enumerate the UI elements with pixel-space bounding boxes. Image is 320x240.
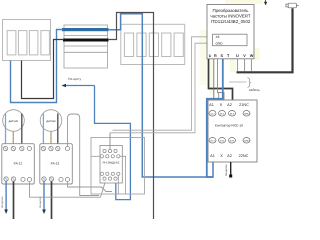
svg-text:14NO: 14NO bbox=[244, 140, 250, 143]
svg-text:22NC: 22NC bbox=[239, 154, 249, 158]
wire sensor1 brown bbox=[12, 131, 14, 147]
wire sensor1 black bbox=[21, 114, 23, 148]
svg-text:A2: A2 bbox=[227, 103, 232, 107]
wire thin line 1 bbox=[64, 34, 108, 36]
wire PA-12 black out bbox=[13, 182, 15, 220]
cursor arrow bbox=[265, 0, 267, 3]
svg-text:X3: X3 bbox=[216, 35, 220, 39]
wire S down jog bbox=[218, 59, 225, 100]
relay PA-13 bbox=[40, 144, 73, 184]
wire PA-12 aux to relay socket bbox=[30, 181, 106, 197]
wire S stub bbox=[218, 93, 220, 101]
wire thin line 2 bbox=[64, 45, 108, 47]
inverter box bbox=[207, 5, 254, 59]
svg-text:датчик: датчик bbox=[46, 119, 56, 123]
callout cable brace bbox=[229, 81, 247, 83]
highlight band right of W bbox=[255, 48, 260, 60]
svg-text:частоты INNOVERT: частоты INNOVERT bbox=[210, 14, 251, 19]
svg-text:4/T2: 4/T2 bbox=[220, 140, 225, 143]
wire PA-13 blue out with arrow bbox=[43, 182, 45, 211]
svg-text:X: X bbox=[220, 103, 223, 107]
svg-text:A1: A1 bbox=[209, 103, 214, 107]
svg-text:ITD112U43B2_0502: ITD112U43B2_0502 bbox=[211, 19, 251, 24]
wire T blue to contactor A1 bbox=[207, 59, 223, 177]
wire blue bar bbox=[62, 28, 109, 31]
motor icon bbox=[286, 3, 299, 8]
wire PE down right bbox=[209, 59, 233, 100]
sensor 2 bbox=[40, 110, 62, 132]
sensor 1 bbox=[3, 110, 25, 132]
svg-text:W: W bbox=[250, 54, 254, 58]
inverter control terminal block X3 bbox=[213, 34, 248, 46]
svg-text:U: U bbox=[236, 54, 239, 58]
relay socket enclosure bbox=[91, 138, 145, 195]
svg-text:Контактор NXC-18: Контактор NXC-18 bbox=[215, 124, 243, 128]
svg-text:На щиток: На щиток bbox=[1, 196, 4, 208]
wire PA-13 aux loop over to relay socket bbox=[68, 114, 100, 196]
svg-text:Преобразователь: Преобразователь bbox=[213, 8, 250, 13]
wire U to cable bbox=[237, 59, 239, 72]
svg-text:6/T3: 6/T3 bbox=[230, 140, 235, 143]
wire X3 line to relay bbox=[113, 37, 213, 130]
svg-text:РА-12: РА-12 bbox=[14, 162, 23, 166]
svg-text:X: X bbox=[220, 154, 223, 158]
highlight band top bbox=[225, 0, 263, 4]
svg-text:A2: A2 bbox=[227, 154, 232, 158]
wire blue cable box to switch box down bbox=[108, 14, 213, 177]
wire sensor2 black bbox=[57, 114, 59, 148]
wire relay row2 right jog bbox=[120, 156, 126, 194]
wire black bar bbox=[63, 39, 109, 42]
breaker panel QF1 bbox=[3, 20, 51, 61]
wire V to cable bbox=[244, 59, 246, 72]
highlight band under inverter mid bbox=[230, 48, 236, 72]
svg-text:⏚: ⏚ bbox=[208, 53, 212, 58]
wire R down bbox=[213, 59, 215, 100]
wire relay row3 right down bbox=[117, 176, 119, 194]
wire black cable box over switch box down bbox=[108, 13, 154, 220]
svg-text:датчик: датчик bbox=[9, 119, 19, 123]
wire sensor2 blue bbox=[42, 114, 44, 148]
wire relay top feed bbox=[109, 133, 111, 149]
wire PA-13 aux bottom link bbox=[68, 182, 113, 192]
wire motor cable bbox=[237, 8, 293, 72]
wire black loop breaker to cable box bbox=[22, 40, 65, 99]
wire A2 bottom black with terminator bbox=[230, 162, 232, 175]
cable terminal box bbox=[64, 25, 108, 68]
wire arrow to panel bbox=[64, 85, 95, 87]
svg-text:R: R bbox=[214, 54, 217, 58]
highlight band under inverter left bbox=[209, 48, 213, 95]
wire PA-12 blue out with arrow bbox=[5, 182, 7, 211]
wire PA-13 black out bbox=[51, 182, 53, 220]
wire sensor1 blue bbox=[5, 114, 7, 148]
relay socket block bbox=[100, 146, 122, 184]
switch box 5-module bbox=[121, 24, 185, 64]
wire sensor2 brown bbox=[50, 131, 52, 147]
svg-text:13NO: 13NO bbox=[244, 113, 250, 116]
svg-text:GND: GND bbox=[216, 41, 224, 45]
svg-text:кабель: кабель bbox=[249, 88, 260, 92]
svg-text:21NC: 21NC bbox=[239, 103, 249, 107]
wire blue panel feed down to relay bbox=[95, 86, 131, 200]
svg-text:РН-2М(Д)/А2: РН-2М(Д)/А2 bbox=[103, 161, 120, 165]
contactor box bbox=[208, 100, 257, 162]
relay PA-12 bbox=[2, 144, 35, 184]
wire GND line to relay bbox=[110, 43, 213, 133]
wire blue loop breaker to cable box bbox=[11, 30, 64, 103]
svg-text:2/T1: 2/T1 bbox=[210, 140, 215, 143]
svg-text:На щиток: На щиток bbox=[225, 164, 228, 176]
svg-text:A1: A1 bbox=[210, 154, 215, 158]
svg-text:РА-13: РА-13 bbox=[51, 162, 60, 166]
svg-text:На щиту: На щиту bbox=[68, 77, 82, 81]
wire thin line 3 bbox=[64, 51, 108, 53]
wire W to cable bbox=[250, 59, 252, 72]
wire relay row2 left stub bbox=[91, 155, 100, 157]
